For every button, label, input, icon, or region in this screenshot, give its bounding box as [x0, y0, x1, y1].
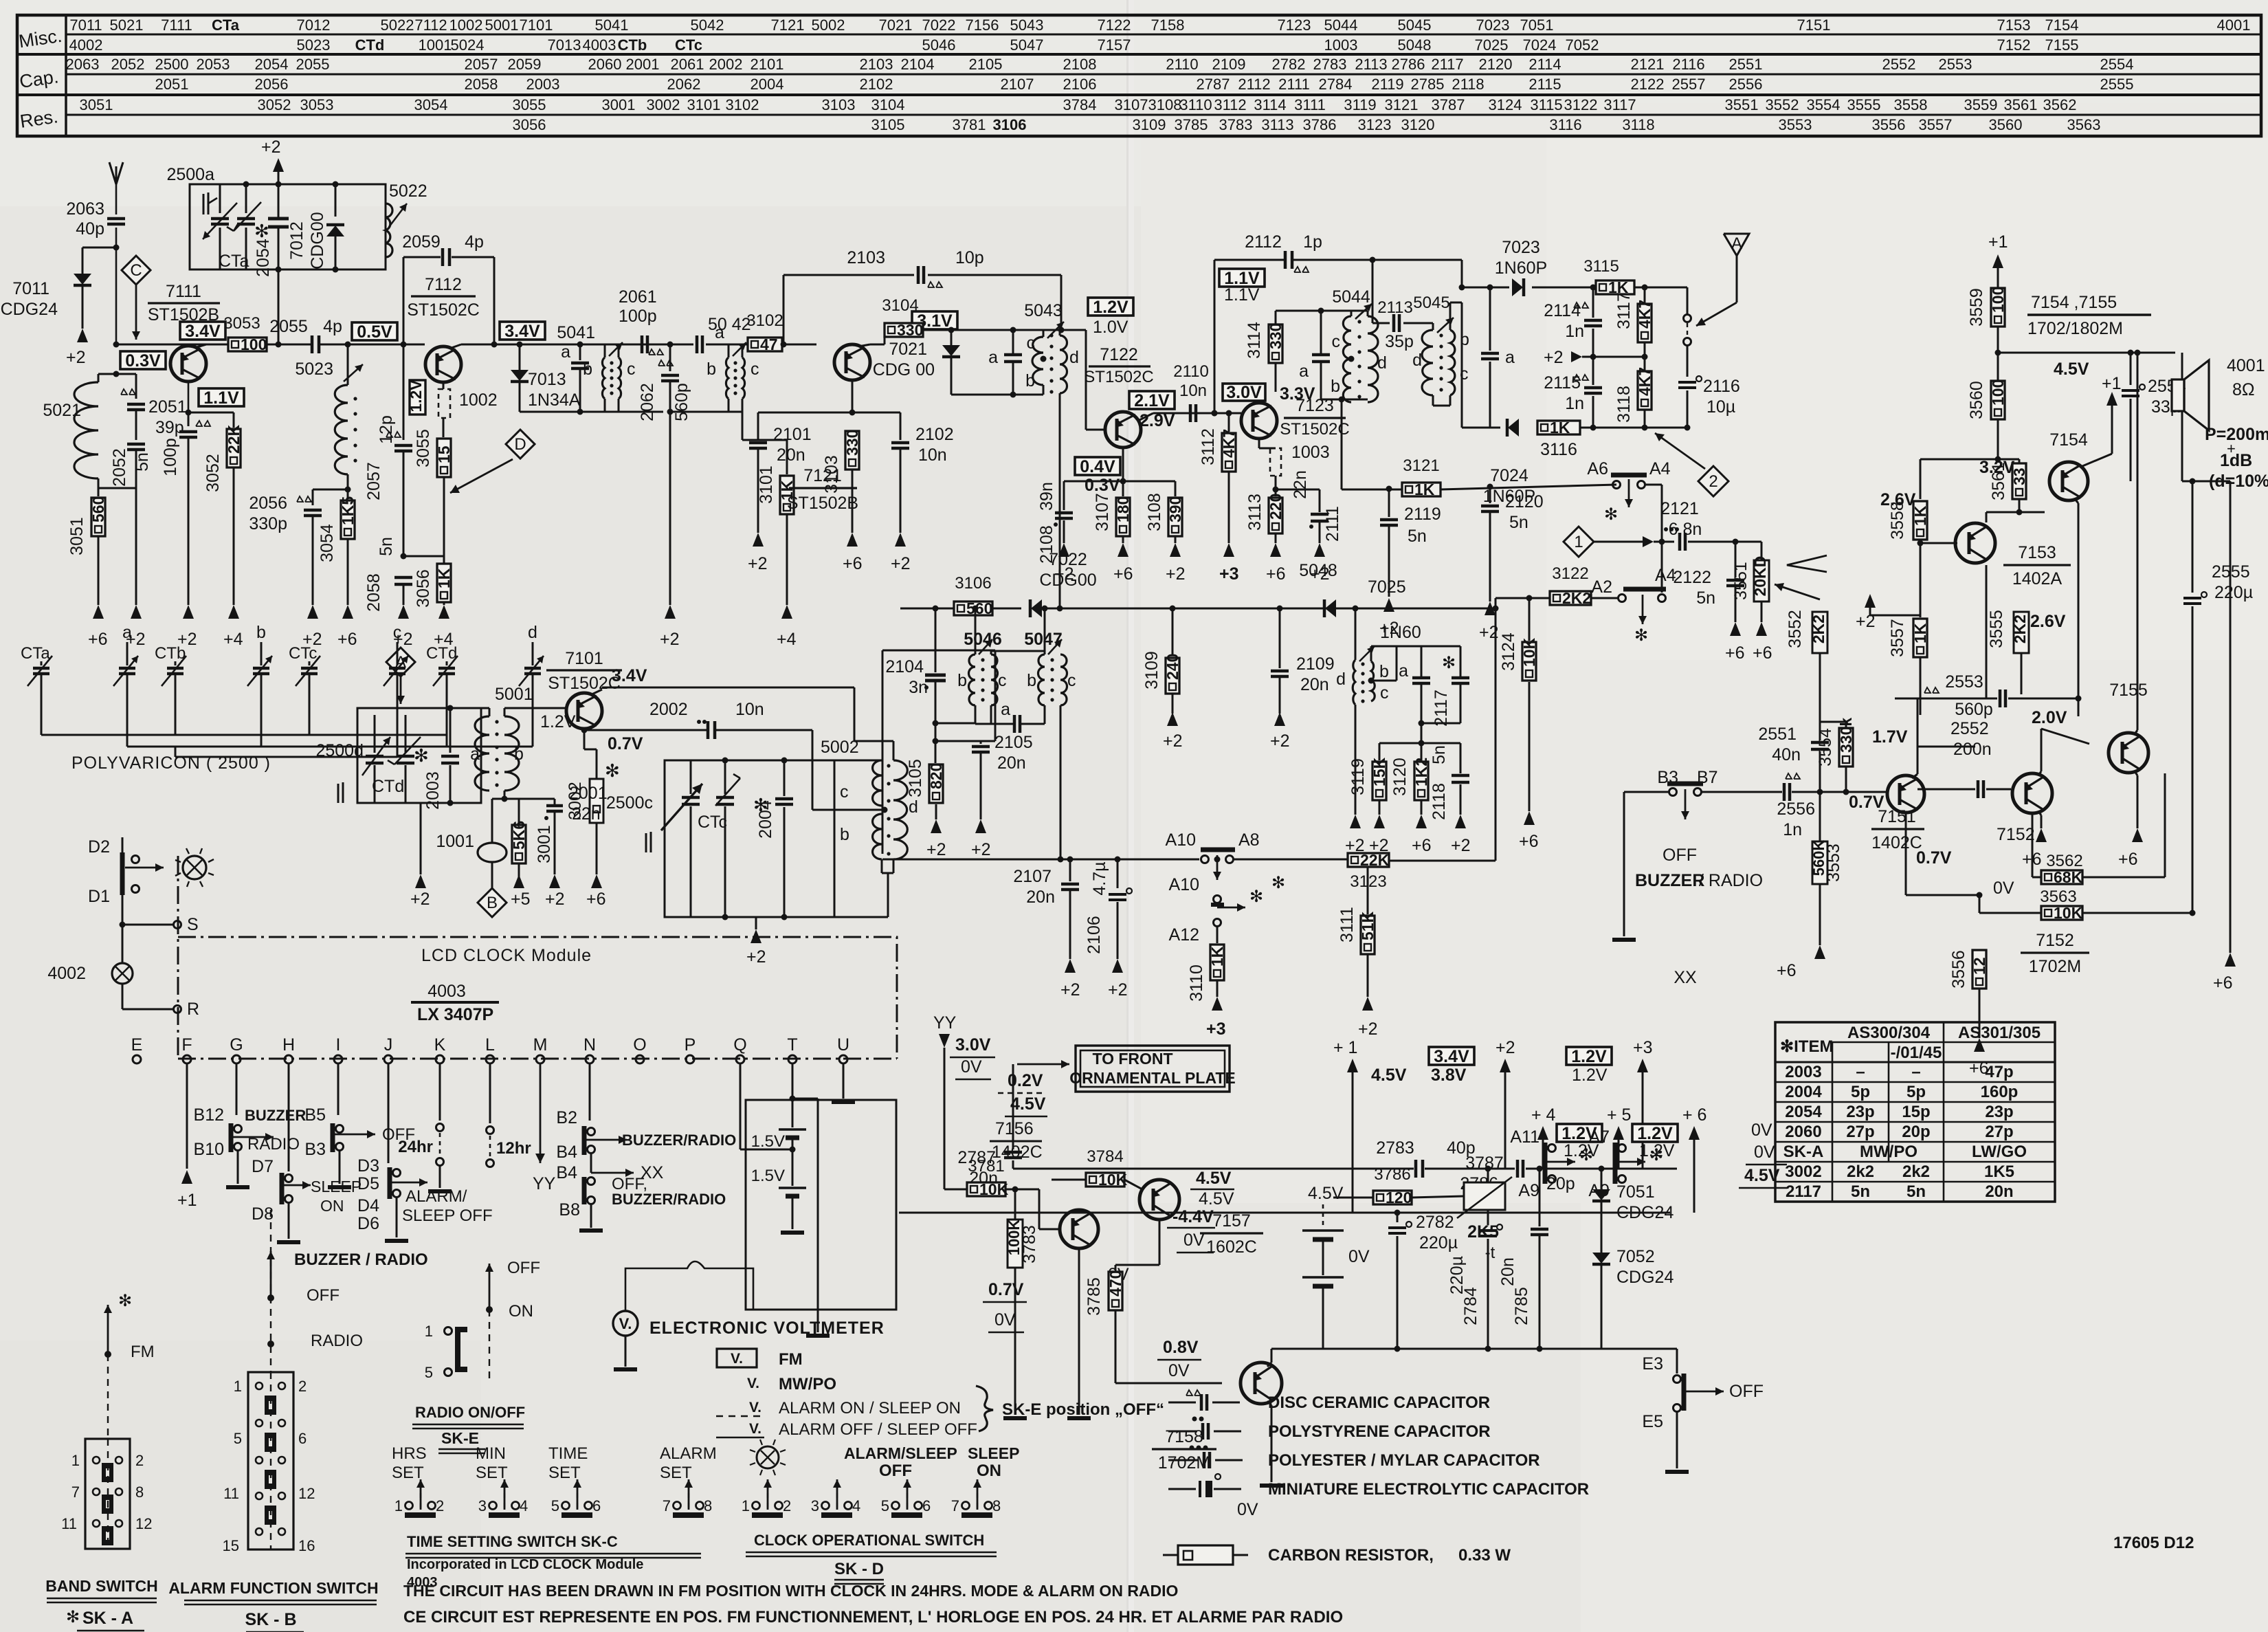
svg-text:5042: 5042	[691, 16, 724, 34]
legend polystyrene capacitor	[1192, 1417, 1197, 1422]
svg-text:1001: 1001	[419, 36, 452, 54]
svg-text:D: D	[514, 435, 526, 454]
svg-text:c: c	[1067, 671, 1076, 690]
transistor 7112	[425, 346, 461, 382]
resistor 3104 330	[870, 344, 885, 346]
svg-text:220µ: 220µ	[1419, 1233, 1458, 1253]
svg-text:4002: 4002	[69, 36, 103, 54]
svg-text:-4.4V: -4.4V	[1172, 1207, 1214, 1226]
svg-text:O: O	[633, 1035, 646, 1055]
resistor 3124 10K	[1526, 595, 1533, 602]
svg-text:+6: +6	[1519, 832, 1539, 851]
capacitor 2116 10u electrolytic	[1678, 381, 1696, 384]
svg-text:E: E	[131, 1035, 143, 1055]
capacitor 2555 220u	[2190, 478, 2196, 485]
voltage box 2.1V	[1129, 391, 1175, 409]
svg-text:A10: A10	[1166, 830, 1196, 850]
svg-text:C: C	[130, 261, 142, 280]
band switch SK-A box	[85, 1439, 130, 1549]
supply +6 below 3054	[342, 605, 353, 619]
svg-text:2003: 2003	[526, 76, 560, 93]
svg-text:1K: 1K	[1414, 481, 1435, 498]
svg-text:D1: D1	[88, 887, 110, 906]
SK-D unit 5-6	[907, 1484, 908, 1510]
svg-text:2116: 2116	[1703, 377, 1740, 396]
supply +2 below 2052	[131, 605, 142, 619]
capacitor 2551 40n	[1811, 741, 1829, 745]
svg-text:7155: 7155	[2045, 36, 2079, 54]
svg-text:b: b	[840, 825, 849, 844]
svg-text:+2: +2	[1166, 564, 1186, 584]
capacitor 2052 5n	[127, 443, 145, 446]
svg-text:CDG00: CDG00	[1039, 571, 1096, 590]
diamond B	[478, 888, 507, 917]
svg-text:7122: 7122	[1100, 345, 1138, 364]
svg-text:1N60P: 1N60P	[1495, 258, 1547, 278]
diode 7022 CDG00	[1031, 599, 1042, 617]
polyvaricon stator symbol	[203, 194, 205, 214]
voltage boxes 3.4V 3.8V	[1429, 1047, 1474, 1065]
resistor 3102 47	[748, 338, 782, 351]
svg-text:3121: 3121	[1385, 96, 1419, 113]
svg-text:SK - B: SK - B	[245, 1610, 297, 1629]
svg-text:ST1502C: ST1502C	[1280, 420, 1349, 439]
svg-text:2k2: 2k2	[1847, 1162, 1874, 1181]
transistor 7123	[1239, 412, 1241, 415]
svg-text:6: 6	[592, 1497, 601, 1514]
svg-text:E3: E3	[1642, 1354, 1663, 1374]
svg-text:5p: 5p	[1851, 1083, 1870, 1101]
node below 3559	[1997, 327, 1999, 381]
svg-text:7152: 7152	[2036, 931, 2074, 950]
svg-text:+ 5: + 5	[1607, 1105, 1631, 1125]
svg-text:+6: +6	[1266, 564, 1286, 584]
svg-text:3784: 3784	[1087, 1147, 1123, 1166]
capacitor 2054	[276, 181, 282, 188]
svg-text:2K2: 2K2	[1562, 589, 1591, 607]
svg-text:c: c	[1380, 683, 1389, 703]
svg-text:220µ: 220µ	[1447, 1256, 1467, 1294]
svg-text:7157: 7157	[1212, 1211, 1251, 1231]
battery box outline	[746, 1100, 896, 1310]
resistor 3120 1K2	[1421, 743, 1423, 760]
svg-text:3001: 3001	[535, 825, 554, 863]
supply +2 at 3557	[1865, 594, 1876, 608]
resistor 3054 1K5	[347, 489, 349, 499]
svg-text:5021: 5021	[43, 401, 81, 420]
parts location table frame	[17, 15, 2261, 136]
svg-text:3555: 3555	[1987, 610, 2006, 648]
detector line with 7024 and 3116	[1462, 427, 1500, 429]
feedback loop 2103 10p	[781, 342, 787, 348]
node line	[1271, 1348, 1677, 1350]
capacitor 2785 20n	[1537, 1166, 1543, 1172]
svg-text:12hr: 12hr	[496, 1139, 531, 1158]
svg-text:+6: +6	[1777, 961, 1797, 980]
terminal J wire down alarm switch D3/D5	[388, 1064, 390, 1163]
resistor 3117 4K7	[1644, 287, 1646, 304]
svg-text:160p: 160p	[1981, 1083, 2019, 1101]
transformer 5042	[728, 344, 730, 357]
svg-text:3120: 3120	[1390, 758, 1410, 796]
svg-text:7151: 7151	[1797, 16, 1831, 34]
capacitor 2552 200n	[1917, 747, 1919, 756]
svg-text:16: 16	[298, 1537, 315, 1554]
svg-text:2: 2	[436, 1497, 444, 1514]
svg-text:b: b	[1025, 371, 1035, 390]
svg-text:3559: 3559	[1964, 96, 1998, 113]
to front ornamental plate box	[1076, 1046, 1230, 1092]
polyvaricon stator symbol 2500d	[337, 784, 340, 803]
svg-text:D4: D4	[357, 1196, 379, 1215]
svg-text:5046: 5046	[922, 36, 956, 54]
svg-text:2784: 2784	[1319, 76, 1353, 93]
svg-text:A4: A4	[1649, 459, 1671, 478]
loop 2112 1p	[1212, 410, 1218, 417]
collector 7155 up	[2135, 730, 2137, 734]
emitter 7123 1003	[1258, 439, 1260, 448]
svg-text:H: H	[282, 1035, 295, 1055]
svg-text:5001: 5001	[485, 16, 519, 34]
resistor 3107 180	[1122, 481, 1124, 496]
svg-text:K: K	[434, 1035, 446, 1055]
svg-text:3.3V: 3.3V	[1280, 384, 1315, 404]
svg-text:2557: 2557	[1672, 76, 1706, 93]
svg-text:+ 1: + 1	[1333, 1038, 1357, 1057]
capacitor 2784 220u	[1485, 1166, 1491, 1172]
wire emitter to 3052	[188, 412, 234, 414]
svg-text:RADIO: RADIO	[247, 1135, 300, 1154]
capacitor 2002 10n polystyrene	[707, 721, 710, 739]
svg-text:3117: 3117	[1614, 292, 1634, 329]
svg-text:+3: +3	[1206, 1019, 1226, 1039]
capacitor 2051 39p	[121, 389, 127, 395]
svg-text:2055: 2055	[269, 317, 308, 336]
svg-text:+6: +6	[843, 554, 863, 573]
svg-text:7011: 7011	[12, 279, 49, 298]
svg-text:100p: 100p	[161, 438, 180, 476]
resistor 3123 22K	[1348, 853, 1389, 867]
svg-text:+1: +1	[1988, 232, 2008, 252]
svg-text:CTa: CTa	[219, 252, 249, 271]
transistor 7154	[2049, 462, 2088, 500]
svg-text:2786: 2786	[1392, 56, 1425, 73]
antenna A symbol	[1724, 234, 1749, 256]
svg-text:7121: 7121	[771, 16, 805, 34]
svg-text:3562: 3562	[2046, 852, 2082, 870]
emitter 7156 to ground	[1078, 1248, 1080, 1415]
supply +2 below 2062	[665, 605, 676, 619]
svg-text:+2: +2	[1544, 348, 1564, 367]
svg-text:1003: 1003	[1291, 443, 1330, 462]
svg-text:3.4V: 3.4V	[1434, 1047, 1469, 1066]
svg-text:2: 2	[783, 1497, 791, 1514]
voltage box 3.0V 3.3V	[1223, 384, 1265, 401]
svg-text:2.6V: 2.6V	[2030, 612, 2066, 631]
svg-text:3120: 3120	[1401, 116, 1435, 133]
svg-text:5043: 5043	[1024, 301, 1063, 320]
svg-text:A7: A7	[1588, 1127, 1610, 1147]
svg-text:V.: V.	[749, 1421, 761, 1437]
svg-text:1: 1	[71, 1452, 80, 1469]
trimmer pair 2	[175, 661, 177, 665]
trimmer array bus wires	[41, 734, 447, 736]
capacitor 2787 20n	[1012, 1064, 1014, 1149]
svg-text:3101: 3101	[687, 96, 721, 113]
svg-text:1K: 1K	[1550, 419, 1570, 437]
svg-text:1702/1802M: 1702/1802M	[2027, 319, 2123, 338]
svg-text:3781: 3781	[968, 1157, 1004, 1176]
svg-text:3108: 3108	[1145, 493, 1164, 531]
capacitor 2109 20n	[1277, 606, 1283, 612]
svg-text:3115: 3115	[1530, 96, 1562, 113]
svg-text:1K5: 1K5	[339, 496, 357, 525]
svg-text:+1: +1	[2102, 374, 2122, 393]
capacitor 2119 5n	[1386, 486, 1392, 492]
trimmer CTc	[722, 758, 729, 764]
svg-text:+2: +2	[1108, 980, 1128, 1000]
svg-text:D5: D5	[357, 1174, 379, 1193]
emitter 7157 to 3785	[1159, 1220, 1161, 1265]
svg-text:2116: 2116	[1672, 56, 1704, 73]
svg-text:a: a	[1505, 348, 1515, 367]
capacitor 2102 10n	[852, 412, 900, 414]
diamond 2 with arrow	[1698, 466, 1728, 496]
svg-text:ON: ON	[977, 1462, 1001, 1480]
trimmer 2500d	[374, 715, 376, 753]
svg-text:A12: A12	[1169, 925, 1199, 945]
capacitor 2115 1n	[1592, 357, 1594, 385]
legend carbon resistor	[1163, 1554, 1178, 1556]
capacitor 2062 560p	[667, 342, 674, 348]
svg-text:7: 7	[71, 1484, 80, 1501]
svg-text:5n: 5n	[1906, 1182, 1926, 1201]
resistor 3108 390	[1175, 481, 1177, 496]
svg-text:CDG24: CDG24	[1, 300, 58, 319]
resistor 3784 10K	[1052, 1179, 1086, 1181]
svg-text:3.4V: 3.4V	[185, 322, 221, 341]
collector line 7122	[1139, 413, 1153, 420]
resistor 3562 68K	[2032, 813, 2034, 877]
svg-text:+6: +6	[1725, 643, 1745, 663]
link between cans with cap a	[991, 650, 1045, 652]
svg-text:SK-E position „OFF“: SK-E position „OFF“	[1002, 1400, 1164, 1419]
resistor 3055 15	[437, 439, 451, 477]
svg-text:OFF: OFF	[307, 1286, 340, 1305]
svg-text:2109: 2109	[1296, 654, 1335, 674]
resistor 3001 5K6	[518, 799, 520, 825]
svg-text:2060: 2060	[1785, 1123, 1821, 1141]
transistor 7111	[170, 346, 206, 382]
svg-text:2110: 2110	[1166, 56, 1198, 73]
svg-text:3551: 3551	[1731, 562, 1750, 600]
svg-text:5021: 5021	[110, 16, 144, 34]
switch B2/B4 buzzer radio	[589, 1064, 591, 1121]
svg-text:SK - A: SK - A	[82, 1609, 133, 1628]
svg-text:4K7: 4K7	[1636, 367, 1654, 396]
24hr 12hr switch	[439, 1064, 441, 1121]
svg-text:3n: 3n	[909, 678, 928, 697]
svg-text:YY: YY	[933, 1013, 957, 1033]
svg-text:7022: 7022	[1049, 550, 1087, 569]
svg-text:ST1502C: ST1502C	[1084, 368, 1153, 386]
svg-text:2057: 2057	[364, 462, 383, 500]
diamond C	[122, 256, 151, 285]
svg-text:4.5V: 4.5V	[1199, 1189, 1234, 1209]
svg-text:B3: B3	[304, 1140, 326, 1159]
svg-text:OFF: OFF	[1663, 846, 1697, 865]
svg-text:5n: 5n	[1430, 745, 1449, 764]
svg-text:+2: +2	[1451, 836, 1471, 855]
svg-text:2122: 2122	[1673, 568, 1711, 587]
svg-text:+6: +6	[2213, 973, 2233, 993]
diode 7025 1N60	[1325, 599, 1336, 617]
resistor 3115 1K	[1596, 280, 1634, 294]
supply +2 below 7011	[77, 329, 88, 342]
svg-text:3551: 3551	[1725, 96, 1759, 113]
svg-text:3119: 3119	[1344, 96, 1376, 113]
svg-text:2101: 2101	[773, 425, 812, 444]
svg-text:3104: 3104	[882, 296, 918, 315]
svg-text:2103: 2103	[847, 248, 885, 267]
svg-text:2K5: 2K5	[1467, 1222, 1499, 1242]
svg-text:5041: 5041	[595, 16, 629, 34]
svg-text:3002: 3002	[1785, 1162, 1821, 1181]
svg-text:B4: B4	[556, 1163, 577, 1182]
svg-text:1.1V: 1.1V	[1224, 285, 1260, 305]
svg-text:1001: 1001	[436, 832, 474, 851]
svg-text:2061: 2061	[671, 56, 704, 73]
line A with 2783 2786	[1013, 1168, 1414, 1170]
resistor 3056 1K	[443, 529, 445, 564]
oscillator box bottom supply +2	[420, 803, 422, 874]
supply +2 below 2058	[398, 605, 409, 619]
svg-text:2111: 2111	[1323, 506, 1342, 542]
svg-text:MIN: MIN	[476, 1444, 506, 1463]
lamp symbol	[183, 856, 206, 879]
svg-text:2: 2	[135, 1452, 144, 1469]
svg-text:3113: 3113	[1245, 494, 1265, 531]
svg-text:2058: 2058	[364, 573, 383, 612]
svg-text:2063: 2063	[66, 56, 100, 73]
svg-text:2054: 2054	[254, 239, 273, 277]
svg-text:7022: 7022	[922, 16, 956, 34]
svg-text:c: c	[751, 360, 759, 379]
svg-text:d: d	[1336, 670, 1346, 689]
svg-text:5022: 5022	[381, 16, 414, 34]
svg-text:5: 5	[425, 1364, 433, 1381]
svg-text:CTd: CTd	[372, 777, 404, 796]
svg-text:20n: 20n	[777, 445, 805, 465]
svg-text:DISC CERAMIC CAPACITOR: DISC CERAMIC CAPACITOR	[1268, 1393, 1490, 1412]
svg-text:b: b	[957, 671, 967, 690]
svg-text:2556: 2556	[1729, 76, 1763, 93]
svg-text:V.: V.	[619, 1315, 632, 1332]
svg-text:2118: 2118	[1430, 783, 1449, 820]
2002 wire to 5002 tap	[812, 730, 814, 810]
switch B5/B3 off	[337, 1064, 340, 1115]
capacitor 2105 20n	[980, 741, 982, 744]
svg-text:LCD CLOCK Module: LCD CLOCK Module	[421, 946, 592, 965]
capacitor 2056 330p	[313, 489, 348, 491]
svg-text:0V: 0V	[994, 1310, 1016, 1330]
svg-text:2787: 2787	[1197, 76, 1230, 93]
svg-text:3554: 3554	[1807, 96, 1841, 113]
svg-text:3101: 3101	[757, 465, 776, 504]
svg-text:2104: 2104	[901, 56, 935, 73]
svg-text:+2: +2	[1270, 731, 1290, 751]
svg-text:b: b	[1027, 671, 1036, 690]
svg-text:2118: 2118	[1452, 76, 1484, 93]
resistor 3114 330	[1269, 324, 1282, 363]
svg-text:27p: 27p	[1846, 1123, 1874, 1141]
svg-text:7155: 7155	[2109, 681, 2148, 700]
wire to diode 7011	[82, 247, 116, 249]
5048 d coil bottom supply	[1355, 705, 1357, 815]
svg-text:HRS: HRS	[392, 1444, 427, 1463]
svg-text:3785: 3785	[1175, 116, 1208, 133]
svg-text:Q: Q	[733, 1035, 746, 1055]
svg-text:5047: 5047	[1010, 36, 1044, 54]
svg-text:1K2: 1K2	[1412, 758, 1430, 786]
svg-text:1002: 1002	[459, 390, 498, 410]
switch A10 A12 vertical	[1214, 857, 1221, 863]
svg-text:+2: +2	[971, 840, 991, 859]
svg-text:3555: 3555	[1847, 96, 1881, 113]
clock operational switch SK-D lamp	[757, 1446, 779, 1468]
svg-text:c: c	[998, 671, 1007, 690]
svg-text:10K: 10K	[979, 1180, 1009, 1198]
svg-text:7013: 7013	[528, 370, 566, 389]
supply +2 below CTc box	[755, 917, 757, 929]
svg-text:2783: 2783	[1313, 56, 1347, 73]
svg-text:3056: 3056	[513, 116, 546, 133]
svg-text:POLYVARICON ( 2500 ): POLYVARICON ( 2500 )	[71, 753, 271, 773]
capacitor 2055 4p	[311, 335, 314, 353]
long vertical from 3122 to rail	[1495, 598, 1497, 861]
svg-text:4001: 4001	[2217, 16, 2251, 34]
svg-text:ALARM FUNCTION SWITCH: ALARM FUNCTION SWITCH	[168, 1579, 378, 1597]
svg-text:+1: +1	[177, 1191, 197, 1210]
resistor 3559 100	[1991, 288, 2005, 327]
svg-text:3117: 3117	[1603, 96, 1636, 113]
capacitor 2113 35p	[1372, 311, 1374, 323]
svg-text:2551: 2551	[1758, 725, 1797, 744]
svg-text:✻: ✻	[118, 1292, 132, 1310]
svg-text:5041: 5041	[557, 323, 595, 342]
svg-text:3124: 3124	[1499, 632, 1518, 671]
voltage box 3.1V	[912, 311, 957, 329]
svg-text:3110: 3110	[1179, 96, 1212, 113]
svg-text:3051: 3051	[80, 96, 113, 113]
svg-text:2002: 2002	[709, 56, 743, 73]
resistor 3122 2K2 with A2 A4 switch	[1496, 597, 1550, 599]
svg-text:5046: 5046	[964, 630, 1002, 649]
emitter cluster 7122	[1122, 448, 1124, 481]
transistor 7152	[2012, 773, 2052, 813]
svg-text:–: –	[1911, 1063, 1920, 1081]
svg-text:0.2V: 0.2V	[1008, 1071, 1043, 1090]
svg-text:5: 5	[881, 1497, 889, 1514]
svg-text:2552: 2552	[1950, 719, 1989, 738]
svg-text:3785: 3785	[1085, 1277, 1104, 1316]
svg-text:+3: +3	[1633, 1038, 1653, 1057]
svg-text:2785: 2785	[1411, 76, 1445, 93]
svg-text:1.2V: 1.2V	[540, 712, 576, 731]
svg-text:3783: 3783	[1219, 116, 1253, 133]
antenna symbol	[109, 162, 116, 184]
svg-text:2119: 2119	[1371, 76, 1403, 93]
